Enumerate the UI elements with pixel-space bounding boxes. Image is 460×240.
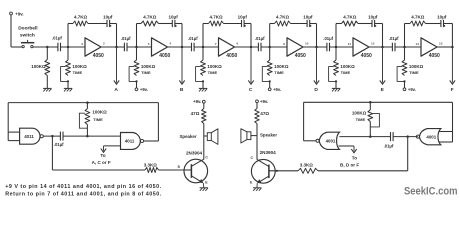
svg-text:100KΩ: 100KΩ	[352, 110, 367, 115]
svg-text:F: F	[451, 87, 454, 93]
input stubs 4011	[8, 131, 19, 133]
stage 1 coupling capacitor .01uF	[57, 43, 59, 52]
resistor 4.7K ohm feedback (stage 3)	[209, 21, 224, 26]
svg-text:To: To	[100, 153, 105, 158]
wire cap to stage 4 input node	[261, 46, 287, 48]
node F tap arrow	[451, 47, 453, 83]
svg-text:3.3KΩ: 3.3KΩ	[300, 162, 314, 167]
svg-text:TIME: TIME	[356, 117, 366, 122]
wire stage 5 output	[369, 46, 392, 48]
stage 5 coupling capacitor .01uF	[326, 43, 328, 52]
svg-text:TIME: TIME	[409, 70, 419, 75]
svg-text:+9v.: +9v.	[140, 87, 148, 92]
svg-text:A, C or F: A, C or F	[92, 160, 111, 165]
resistor 3.3K ohm (right)	[298, 168, 318, 173]
svg-text:TIME: TIME	[93, 117, 103, 122]
stage 5 feedback wire up	[335, 24, 337, 48]
wire 10uF to output corner (stage 6)	[444, 23, 453, 25]
wire resistor to 10uF cap (stage 4)	[291, 23, 308, 25]
svg-text:100KΩ: 100KΩ	[409, 64, 424, 69]
ground (stage 5 pot)	[335, 81, 337, 88]
svg-text:4: 4	[170, 42, 172, 46]
output junction (stage 4)	[315, 46, 318, 49]
svg-text:Return to pin 7 of 4011 and 40: Return to pin 7 of 4011 and 4001, and pi…	[5, 191, 162, 197]
stage 1 feedback wire up	[67, 24, 69, 48]
node C tap arrow	[250, 47, 252, 83]
mid wire 4001 inputs	[339, 136, 390, 138]
wire terminal to 47 ohm	[203, 103, 205, 108]
junction to transistor branch	[51, 135, 54, 138]
junction pot bottom (left)	[86, 135, 89, 138]
stub external input To A,C or F	[104, 145, 121, 147]
svg-text:TIME: TIME	[141, 70, 151, 75]
svg-text:100KΩ: 100KΩ	[31, 64, 46, 69]
Q2 emitter with arrow	[259, 176, 269, 182]
wire from +9V terminal down	[10, 15, 12, 47]
capacitor 10uF feedback (stage 6)	[440, 20, 442, 27]
NAND gate 4011 (right, gated)	[121, 133, 141, 150]
svg-text:C: C	[249, 87, 253, 93]
potentiometer 100K TIME (stage 3)	[202, 47, 204, 60]
stage 4 feedback wire up	[269, 24, 271, 48]
svg-text:100KΩ: 100KΩ	[92, 110, 107, 115]
junction pot bottom (right)	[369, 135, 372, 138]
svg-text:4050: 4050	[429, 53, 440, 59]
svg-text:14: 14	[416, 42, 420, 46]
capacitor 10uF feedback (stage 3)	[241, 20, 243, 27]
resistor 4.7K ohm feedback (stage 2)	[141, 21, 159, 26]
output junction (stage 3)	[250, 46, 253, 49]
ground (under 100K pulldown)	[43, 87, 51, 89]
svg-text:4050: 4050	[226, 53, 237, 59]
wire resistor to 10uF cap (stage 2)	[159, 23, 173, 25]
node A tap arrow	[116, 47, 118, 83]
svg-text:15: 15	[439, 42, 443, 46]
stage 2 coupling capacitor .01uF	[123, 43, 125, 52]
+9V terminal (right speaker rail)	[256, 100, 259, 103]
svg-text:.01μf: .01μf	[384, 143, 394, 148]
bubble 4011 right	[140, 139, 143, 142]
output junction (stage 6)	[451, 46, 454, 49]
resistor 3.3K ohm (left)	[145, 168, 159, 173]
wire cap to 4001 B	[393, 136, 418, 138]
svg-text:10μf: 10μf	[238, 15, 248, 20]
svg-text:B: B	[180, 87, 184, 93]
wire resistor to 10uF cap (stage 6)	[426, 23, 441, 25]
output junction (stage 2)	[181, 46, 184, 49]
svg-text:4001: 4001	[326, 139, 336, 144]
svg-text:10μf: 10μf	[168, 15, 178, 20]
buffer 4050 U6	[421, 38, 437, 56]
capacitor 10uF feedback (stage 1)	[106, 20, 108, 27]
resistor 4.7K ohm feedback (stage 6)	[410, 21, 426, 26]
wire stage 1 output	[101, 46, 124, 48]
svg-text:SeekIC.com: SeekIC.com	[404, 186, 458, 198]
svg-text:D: D	[314, 87, 318, 93]
output junction (stage 1)	[115, 46, 118, 49]
resistor 4.7K ohm feedback (stage 4)	[275, 21, 291, 26]
stage 6 input node junction	[403, 46, 406, 49]
svg-text:.01μf: .01μf	[323, 36, 333, 41]
svg-text:4050: 4050	[295, 53, 306, 59]
svg-text:TIME: TIME	[73, 70, 83, 75]
stage 6 coupling capacitor .01uF	[391, 43, 393, 52]
stage 4 coupling capacitor .01uF	[257, 43, 259, 52]
svg-text:Doorbell: Doorbell	[18, 26, 37, 32]
wire supply to switch	[11, 46, 22, 48]
svg-text:4.7KΩ: 4.7KΩ	[74, 15, 88, 20]
NOR gate 4001 (far right)	[419, 129, 440, 145]
svg-text:TIME: TIME	[341, 70, 351, 75]
svg-text:.01μf: .01μf	[54, 142, 64, 147]
svg-text:.01μf: .01μf	[121, 36, 131, 41]
NOR gate 4001 (left of pair)	[319, 132, 339, 149]
svg-text:100KΩ: 100KΩ	[340, 64, 355, 69]
svg-text:10μf: 10μf	[103, 15, 113, 20]
svg-text:10μf: 10μf	[368, 15, 378, 20]
wire cap to stage 3 input node	[194, 46, 218, 48]
wire 10uF to output corner (stage 2)	[175, 23, 182, 25]
svg-text:2N3904: 2N3904	[186, 150, 203, 155]
capacitor 10uF feedback (stage 4)	[306, 20, 308, 27]
svg-text:7: 7	[215, 42, 217, 46]
svg-text:9: 9	[283, 42, 285, 46]
svg-text:4.7KΩ: 4.7KΩ	[411, 15, 425, 20]
svg-text:4011: 4011	[125, 139, 135, 144]
svg-text:4.7KΩ: 4.7KΩ	[276, 15, 290, 20]
svg-text:10: 10	[305, 42, 309, 46]
bubble 4011 left	[40, 135, 43, 138]
svg-text:3.3KΩ: 3.3KΩ	[144, 162, 158, 167]
wire cap to stage 6 input node	[395, 46, 421, 48]
wire stage 6 output	[437, 46, 452, 48]
resistor 4.7K ohm feedback (stage 5)	[342, 21, 359, 26]
svg-text:A: A	[114, 87, 118, 93]
Q1 collector	[192, 159, 204, 166]
stage 2 input node junction	[135, 46, 138, 49]
svg-text:4050: 4050	[361, 53, 372, 59]
stage 1 input node junction	[67, 46, 70, 49]
stage 3 feedback wire up	[202, 24, 204, 48]
potentiometer 100K TIME (stage 2)	[136, 47, 138, 60]
svg-text:Speaker: Speaker	[260, 132, 277, 137]
svg-text:Speaker: Speaker	[180, 134, 197, 139]
svg-text:10μf: 10μf	[303, 15, 313, 20]
node D tap arrow	[316, 47, 318, 83]
svg-text:+9v.: +9v.	[193, 99, 201, 104]
buffer 4050 U4	[287, 38, 303, 56]
svg-text:100KΩ: 100KΩ	[274, 64, 289, 69]
speaker SPK2	[251, 135, 257, 137]
+9V terminal (left speaker rail)	[202, 100, 205, 103]
wire cap to 4011 B input	[63, 135, 121, 137]
wire 47 ohm to collector	[203, 124, 205, 160]
wire cap to stage 1 input node	[61, 46, 86, 48]
svg-text:4.7KΩ: 4.7KΩ	[143, 15, 157, 20]
svg-text:switch: switch	[20, 33, 35, 39]
feedback top wire (right section)	[304, 101, 453, 103]
svg-text:2: 2	[103, 42, 105, 46]
svg-text:100KΩ: 100KΩ	[141, 64, 156, 69]
svg-text:+9v.: +9v.	[260, 99, 268, 104]
wire stage 2 output	[168, 46, 192, 48]
+9V terminal (stage 4 pot)	[269, 81, 271, 88]
stub external input To B,D or F	[339, 145, 354, 147]
wire 47 ohm to collector (right)	[256, 124, 258, 160]
svg-text:10μf: 10μf	[437, 15, 447, 20]
ground (stage 3 pot)	[202, 81, 204, 88]
wire switch to node	[33, 46, 58, 48]
junction transistor branch (right)	[406, 135, 409, 138]
resistor 47 ohm (right)	[255, 108, 259, 123]
potentiometer 100K TIME (stage 6)	[404, 47, 406, 60]
svg-text:+9v.: +9v.	[15, 12, 23, 17]
wire resistor to 10uF cap (stage 1)	[88, 23, 107, 25]
svg-text:2N3904: 2N3904	[260, 150, 277, 155]
Q1 emitter with arrow	[192, 176, 202, 182]
ground (stage 1 pot)	[67, 81, 69, 88]
capacitor .01uF (left section)	[59, 132, 61, 141]
svg-text:.01μf: .01μf	[389, 36, 399, 41]
wire terminal to 47 ohm (right)	[256, 103, 258, 109]
stage 4 input node junction	[268, 46, 271, 49]
Q2 base wire	[269, 170, 298, 172]
+9V terminal (stage 6 pot)	[404, 81, 406, 88]
potentiometer 100K TIME (right section)	[369, 102, 371, 110]
wire resistor to 10uF cap (stage 3)	[224, 23, 242, 25]
wire stage 3 output	[235, 46, 259, 48]
stage 5 input node junction	[335, 46, 338, 49]
wire 4011 output	[43, 135, 60, 137]
stage 3 coupling capacitor .01uF	[191, 43, 193, 52]
svg-text:4.7KΩ: 4.7KΩ	[343, 15, 357, 20]
svg-text:100KΩ: 100KΩ	[72, 64, 87, 69]
resistor 100K ohm (switch pulldown)	[46, 47, 48, 60]
wire 3.3K to Q1 base	[159, 169, 191, 171]
svg-text:TIME: TIME	[274, 70, 284, 75]
svg-text:4.7KΩ: 4.7KΩ	[209, 15, 223, 20]
svg-text:4050: 4050	[159, 53, 170, 59]
buffer 4050 U5	[353, 38, 369, 56]
capacitor 10uF feedback (stage 2)	[171, 20, 173, 27]
svg-text:47Ω: 47Ω	[191, 111, 200, 116]
wire stage 4 output	[303, 46, 327, 48]
wire down to 3.3K	[51, 136, 53, 170]
svg-text:+9 V to pin 14 of 4011 and 400: +9 V to pin 14 of 4011 and 4001, and pin…	[5, 184, 161, 190]
wire cap to stage 5 input node	[330, 46, 354, 48]
buffer 4050 U2	[152, 38, 168, 56]
resistor 4.7K ohm feedback (stage 1)	[73, 21, 88, 26]
wire cap to stage 2 input node	[127, 46, 152, 48]
potentiometer 100K TIME (stage 4)	[269, 47, 271, 60]
svg-text:5: 5	[148, 42, 150, 46]
ground (Q2 emitter)	[253, 187, 261, 189]
svg-text:.01μf: .01μf	[255, 36, 265, 41]
Q2 collector	[257, 159, 269, 166]
svg-text:.01μf: .01μf	[52, 36, 62, 41]
svg-text:To: To	[352, 155, 357, 160]
wire 10uF to output corner (stage 1)	[110, 23, 117, 25]
input stubs 4001 far right	[439, 131, 453, 133]
stage 2 feedback wire up	[136, 24, 138, 48]
potentiometer 100K TIME (stage 1)	[67, 47, 69, 60]
wire 4001 output to top wire	[304, 140, 317, 142]
svg-text:11: 11	[348, 42, 352, 46]
doorbell pushbutton switch S1	[22, 45, 24, 47]
stage 6 feedback wire up	[404, 24, 406, 48]
svg-text:3: 3	[81, 42, 83, 46]
buffer 4050 U3	[219, 38, 235, 56]
capacitor .01uF (right section)	[390, 132, 392, 141]
+9V terminal (stage 2 pot)	[136, 81, 138, 88]
svg-text:12: 12	[371, 42, 375, 46]
wire 3.3K to mid node (right)	[318, 170, 408, 172]
bubble 4001 left	[316, 139, 319, 142]
wire 10uF to output corner (stage 5)	[375, 23, 383, 25]
speaker SPK1	[204, 135, 208, 137]
resistor 47 ohm (left)	[202, 109, 206, 124]
junction dot at 100K pulldown	[46, 46, 49, 49]
potentiometer 100K TIME (left section)	[86, 103, 88, 109]
buffer 4050 U1	[85, 38, 101, 56]
capacitor 10uF feedback (stage 5)	[371, 20, 373, 27]
svg-text:4011: 4011	[24, 134, 34, 139]
node B tap arrow	[181, 47, 183, 83]
ground (Q1 emitter)	[200, 187, 208, 189]
wire resistor to 10uF cap (stage 5)	[358, 23, 372, 25]
svg-text:4001: 4001	[426, 134, 436, 139]
svg-text:TIME: TIME	[208, 70, 218, 75]
svg-text:+9v.: +9v.	[273, 87, 281, 92]
potentiometer 100K TIME (stage 5)	[335, 47, 337, 60]
NAND gate 4011 (left, oscillator)	[20, 128, 40, 144]
node E tap arrow	[382, 47, 384, 83]
wire 10uF to output corner (stage 3)	[244, 23, 251, 25]
svg-text:+9v.: +9v.	[408, 87, 416, 92]
stage 3 input node junction	[202, 46, 205, 49]
left vertical to gate inputs	[7, 103, 9, 141]
output junction (stage 5)	[381, 46, 384, 49]
bubble 4001 right	[416, 135, 419, 138]
svg-text:.01μf: .01μf	[188, 36, 198, 41]
svg-text:4050: 4050	[93, 53, 104, 59]
wire 10uF to output corner (stage 4)	[310, 23, 317, 25]
+9V supply terminal (top left)	[10, 12, 13, 15]
svg-text:6: 6	[237, 42, 239, 46]
svg-text:B, D or F: B, D or F	[340, 162, 359, 167]
wire 4011 B output up to top wire	[144, 140, 159, 142]
feedback top wire (left section)	[8, 102, 158, 104]
svg-text:100KΩ: 100KΩ	[207, 64, 222, 69]
svg-text:47Ω: 47Ω	[260, 111, 269, 116]
